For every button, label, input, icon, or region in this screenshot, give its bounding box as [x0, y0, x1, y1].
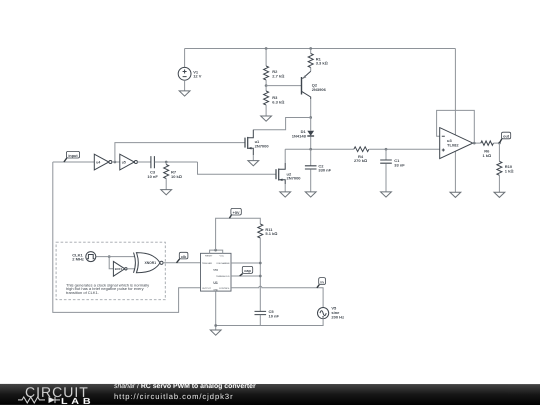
resistor R10 [497, 161, 514, 175]
wire R3 bottom lead [265, 105, 267, 116]
resistor R2 [264, 66, 285, 80]
resistor R11 [258, 224, 278, 238]
ground below opamp [450, 192, 461, 197]
ground below C1 [381, 192, 392, 197]
flag out [499, 132, 510, 143]
capacitor C2 [305, 163, 332, 172]
wire base lead [266, 85, 301, 87]
node u4 out junction [114, 161, 117, 164]
resistor R7 [164, 165, 182, 179]
svg-text:DISCHARGE: DISCHARGE [217, 262, 231, 265]
555 timer U1 [201, 253, 232, 291]
buffer BUF1 [113, 261, 127, 276]
wire D1 anode lead [310, 118, 312, 131]
svg-text:u4: u4 [96, 160, 100, 164]
svg-text:+5V: +5V [233, 211, 240, 215]
wire clock to xnor top input [96, 256, 135, 258]
svg-text:2.7 kΩ: 2.7 kΩ [272, 74, 284, 79]
inverter u4 [94, 154, 112, 170]
ground below R10 [494, 192, 505, 197]
svg-text:2N3906: 2N3906 [312, 87, 327, 92]
wire buf out to xnor bottom input [127, 268, 135, 270]
svg-text:2N7000: 2N7000 [255, 144, 270, 149]
inverter u5 [120, 154, 138, 170]
wire C1 top lead [385, 149, 387, 160]
note dashed box [56, 242, 165, 300]
resistor R6 [481, 141, 494, 158]
flag in [317, 278, 326, 288]
svg-text:3.3 kΩ: 3.3 kΩ [316, 61, 328, 66]
wire R6 to out node [493, 142, 499, 144]
ground below u2 [280, 192, 291, 197]
svg-text:OUTPUT: OUTPUT [202, 288, 212, 290]
svg-text:6.3 kΩ: 6.3 kΩ [272, 100, 284, 105]
wire C3 right [155, 161, 198, 163]
wire opamp supply vertical [454, 49, 456, 193]
svg-text:33 nF: 33 nF [394, 162, 405, 167]
transistor u1 2N7000 [245, 130, 269, 155]
wire V5 bottom lead [216, 319, 323, 326]
ground below u1 [248, 161, 259, 166]
wire xnor out to 555 trigger [163, 262, 200, 264]
ground below 555 [210, 330, 221, 335]
svg-text:u5: u5 [122, 160, 126, 164]
svg-text:555: 555 [213, 268, 218, 272]
node feedback junction [473, 142, 476, 145]
transistor u2 2N7000 [276, 163, 301, 184]
svg-text:270 kΩ: 270 kΩ [354, 158, 367, 163]
wire R2 top lead [265, 49, 267, 67]
wire u5 out [137, 161, 150, 163]
wire u2 source lead [284, 184, 286, 192]
wire R11 bottom to C5 column [259, 238, 261, 311]
svg-text:cap: cap [244, 269, 251, 273]
svg-text:transition of CLK1.: transition of CLK1. [66, 290, 99, 295]
resistor R1 [308, 54, 327, 68]
svg-text:1N4148: 1N4148 [292, 133, 307, 138]
wire R4 to opamp [369, 148, 440, 150]
ground below V1 [179, 91, 190, 96]
wire to u1 gate [115, 143, 246, 162]
wire Q2 collector to node [310, 99, 312, 118]
svg-text:5.1 kΩ: 5.1 kΩ [265, 231, 277, 236]
wire C1 bottom lead [385, 164, 387, 192]
node clock source junction [108, 255, 111, 258]
wire R3 top lead [265, 86, 267, 91]
wire clock to buf input [109, 257, 113, 269]
svg-text:BUF1: BUF1 [115, 267, 123, 271]
ground below R7 [161, 190, 172, 195]
svg-text:CONTROL: CONTROL [219, 288, 230, 290]
wire R7 top lead [165, 162, 167, 165]
flag input [64, 151, 80, 162]
wire opamp output [473, 142, 481, 144]
wire left input vertical from 555 output [53, 162, 201, 312]
svg-text:200 Hz: 200 Hz [331, 315, 344, 320]
node gnd rail junction [214, 324, 217, 327]
node C3/R7 junction [165, 161, 168, 164]
diode D1 1N4148 [292, 129, 314, 138]
svg-text:input: input [68, 154, 78, 158]
wire 555 threshold pin [231, 275, 260, 277]
svg-text:VCC: VCC [219, 256, 224, 258]
flag +5V [229, 208, 241, 218]
ground below R3 [261, 116, 272, 121]
voltage source V5 [318, 306, 345, 320]
wire R2 bottom lead [265, 80, 267, 86]
note text [66, 283, 149, 295]
clock source CLK1 [72, 252, 96, 262]
wire node to u1 drain [253, 118, 310, 130]
wire R1 top lead [310, 49, 312, 54]
wire u2 drain lead [284, 149, 286, 163]
wire D1 cathode lead [310, 137, 312, 150]
wire top rail [185, 48, 456, 50]
gate XNOR1 [134, 253, 164, 273]
wire to u2 gate [198, 162, 277, 174]
svg-text:THRESHOLD: THRESHOLD [216, 276, 230, 278]
svg-text:10 kΩ: 10 kΩ [171, 174, 182, 179]
op-amp u3 TL082 [440, 128, 473, 159]
wire 555 discharge pin [231, 262, 260, 264]
capacitor C3 [147, 156, 158, 179]
svg-text:RESET: RESET [205, 256, 213, 258]
node top rail junction R1 [309, 47, 312, 50]
resistor R4 [354, 147, 369, 163]
svg-text:TRIGGER: TRIGGER [202, 263, 212, 265]
svg-text:10 nF: 10 nF [269, 313, 280, 318]
wire input net horizontal [53, 161, 95, 163]
svg-text:1 kΩ: 1 kΩ [505, 168, 514, 173]
capacitor C1 [380, 158, 405, 167]
node threshold junction [259, 275, 262, 278]
flag cap [240, 266, 253, 276]
wire V1 top lead [184, 49, 186, 68]
wire C5 bottom lead [259, 315, 261, 326]
wire opamp feedback loop [437, 110, 475, 143]
ground below C2 [305, 192, 316, 197]
wire C2 bottom lead [310, 169, 312, 192]
svg-text:XNOR1: XNOR1 [144, 261, 156, 265]
svg-text:330 nF: 330 nF [318, 168, 331, 173]
svg-text:1 kΩ: 1 kΩ [482, 153, 491, 158]
wire R10 bottom lead [498, 175, 500, 192]
node collector/D1 junction [309, 116, 312, 119]
wire u4 out [112, 161, 120, 163]
node top rail junction R2 [265, 47, 268, 50]
svg-text:2 MHz: 2 MHz [72, 257, 84, 262]
node D1/C2 junction [309, 148, 312, 151]
transistor Q2 2N3906 [302, 71, 327, 99]
node C1 junction [385, 148, 388, 151]
wire V1 bottom lead [184, 80, 186, 91]
node R2/R3/base junction [265, 84, 268, 87]
svg-text:10 nF: 10 nF [147, 174, 158, 179]
svg-text:out: out [503, 135, 510, 139]
wire C2 top lead [310, 149, 312, 165]
wire 555 reset/vcc bridge [210, 250, 223, 253]
wire R10 top lead [498, 143, 500, 161]
capacitor C5 [255, 309, 280, 318]
node discharge junction [259, 262, 262, 265]
wire R1 bottom lead [310, 68, 312, 72]
svg-text:TL082: TL082 [447, 142, 459, 147]
svg-text:12 V: 12 V [193, 74, 202, 79]
node out junction [498, 142, 501, 145]
svg-text:clk: clk [181, 255, 187, 259]
svg-text:U1: U1 [213, 281, 218, 285]
node +5V bridge junction [214, 249, 217, 252]
resistor R3 [264, 91, 285, 105]
flag clk [177, 252, 188, 262]
wire 555 control pin with hop [231, 286, 323, 307]
wire main analog node [285, 148, 354, 150]
wire u1 source lead [252, 155, 254, 161]
voltage source V1 [178, 67, 202, 80]
svg-text:2N7000: 2N7000 [287, 176, 302, 181]
wire R7 bottom lead [165, 179, 167, 190]
wire 555 gnd pin [215, 291, 217, 330]
wire +5V supply [216, 218, 261, 250]
